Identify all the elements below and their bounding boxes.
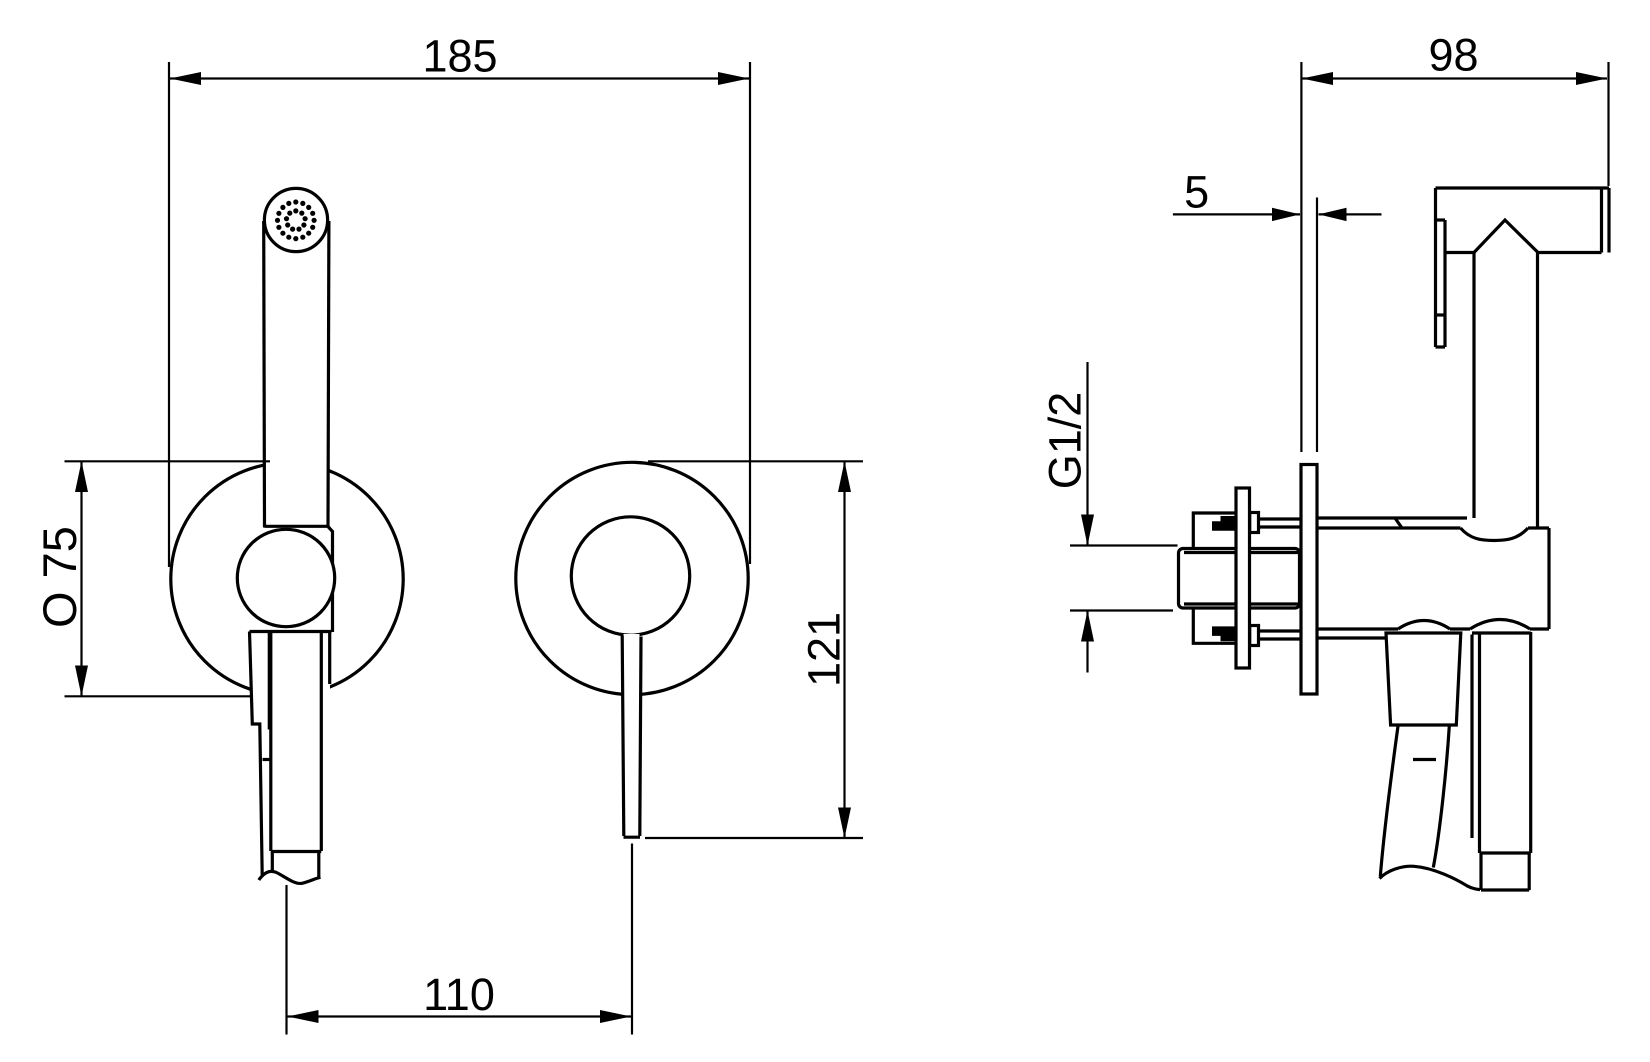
concealed valve body bbox=[1179, 549, 1300, 609]
svg-text:O 75: O 75 bbox=[33, 526, 86, 628]
hose (side) bbox=[1380, 726, 1481, 890]
sprayer head (side) bbox=[1436, 188, 1610, 347]
wall plate (escutcheon side) bbox=[1301, 465, 1317, 695]
sprayer grip (side, lower) bbox=[1472, 632, 1531, 890]
mixer lever handle bbox=[622, 634, 641, 837]
dimension 5 bbox=[1173, 167, 1382, 453]
shower hose (front) bbox=[259, 632, 322, 884]
dimension 98 bbox=[1301, 30, 1608, 453]
dimension G1/2 bbox=[1040, 362, 1178, 673]
holder cup top edge bbox=[250, 630, 332, 633]
svg-text:110: 110 bbox=[423, 969, 495, 1020]
dimension O 75 bbox=[33, 461, 270, 696]
hand shower wand body bbox=[264, 221, 329, 528]
svg-text:121: 121 bbox=[799, 612, 850, 687]
upper fixing screw bbox=[1259, 519, 1302, 527]
holder left strip bbox=[250, 632, 271, 876]
escutcheon plate circle (left, O 75) bbox=[171, 463, 403, 695]
svg-text:G1/2: G1/2 bbox=[1040, 392, 1091, 490]
lower fixing screw bbox=[1259, 631, 1302, 639]
upper nut bbox=[1250, 513, 1259, 533]
upper mounting bracket bbox=[1193, 513, 1235, 549]
dimension 121 bbox=[645, 461, 863, 838]
shower knob (holder pivot) bbox=[237, 529, 334, 626]
mounting flange plate bbox=[1236, 488, 1250, 668]
holder cup and hose (white mask over escutcheon arc) bbox=[251, 633, 330, 880]
spray face dots bbox=[275, 199, 317, 241]
holder cup right edge bbox=[328, 632, 331, 685]
lower nut bbox=[1250, 626, 1259, 646]
holder body tube (through wall) bbox=[1317, 518, 1549, 638]
hand shower head circle bbox=[264, 188, 327, 251]
lower mounting bracket bbox=[1193, 608, 1235, 643]
mixer handle base circle bbox=[571, 517, 689, 635]
hose nut cone (side) bbox=[1386, 633, 1461, 725]
lower seal (black) bbox=[1212, 626, 1236, 641]
shower holder behind knob bbox=[328, 527, 333, 633]
svg-text:5: 5 bbox=[1184, 167, 1209, 218]
dimension 110 bbox=[287, 844, 633, 1035]
mixer escutcheon circle (right) bbox=[516, 462, 748, 694]
upper seal (black) bbox=[1212, 516, 1236, 531]
holder hook (side) bbox=[1436, 220, 1446, 347]
sprayer grip (side, upper) bbox=[1474, 253, 1538, 529]
svg-text:98: 98 bbox=[1428, 30, 1478, 81]
svg-text:185: 185 bbox=[422, 31, 497, 82]
dimension 185 bbox=[169, 31, 750, 568]
